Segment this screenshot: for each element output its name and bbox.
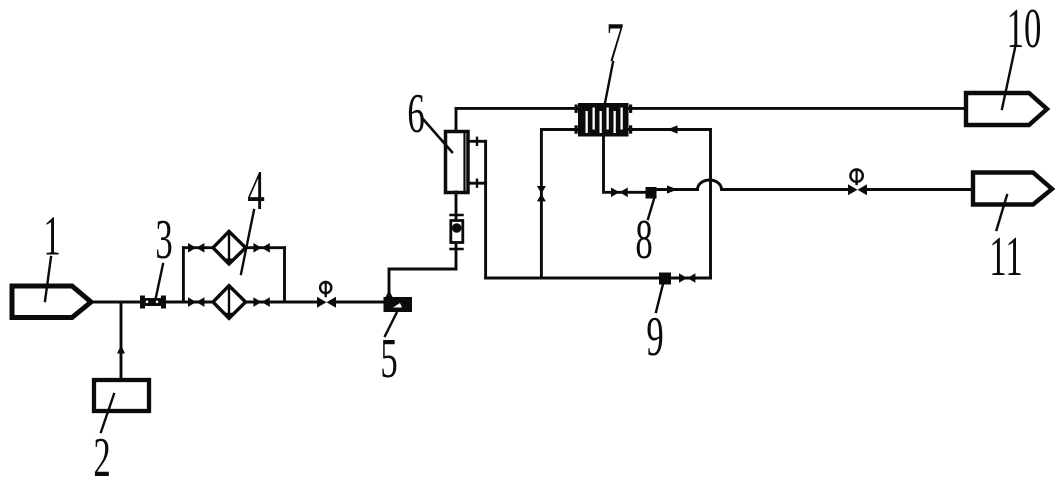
label 3 leader xyxy=(156,264,163,297)
vessel 6 side stubs xyxy=(468,141,486,183)
wire: up to vessel 6 xyxy=(455,192,458,269)
label 2 leader xyxy=(101,394,114,432)
wire: exchanger bottom-left to loop xyxy=(541,130,578,279)
inline instrument under 6 xyxy=(451,214,463,217)
wire: upper branch xyxy=(183,246,284,249)
node T to tank 2 xyxy=(120,302,123,380)
wire: left riser of filter pair xyxy=(182,248,185,302)
heat exchanger 7 xyxy=(578,103,629,137)
exchanger port ticks xyxy=(575,105,633,134)
svg-text:7: 7 xyxy=(606,12,623,75)
svg-text:6: 6 xyxy=(407,83,424,146)
flow arrow right xyxy=(667,185,678,193)
wire: bottom return line xyxy=(486,277,711,280)
svg-text:9: 9 xyxy=(646,306,663,369)
valve on pump 8 line xyxy=(611,188,619,198)
flow arrow up at pump 5 xyxy=(385,290,393,298)
svg-text:4: 4 xyxy=(247,160,264,223)
flow arrow left toward exchanger xyxy=(667,125,678,133)
svg-text:3: 3 xyxy=(155,209,172,272)
wire: exchanger bottom-right to downcomer xyxy=(629,130,711,279)
label 9 leader xyxy=(656,284,663,312)
vessel 6 xyxy=(446,132,469,193)
wire: to pump 5 xyxy=(336,301,389,304)
flow arrow up on tank 2 line xyxy=(117,345,125,354)
valve on bottom return xyxy=(679,273,687,283)
valve upper-left xyxy=(188,243,196,253)
source arrow box 1 xyxy=(12,286,91,318)
pump 8 xyxy=(646,187,657,199)
label 6 leader xyxy=(423,119,452,152)
wire: exchanger 7 to receiver 10 xyxy=(629,107,967,110)
pump 9 xyxy=(659,273,671,285)
label 10 leader xyxy=(1002,48,1015,109)
wire: vessel 6 top to exchanger line xyxy=(456,108,578,131)
wire: right riser of filter pair xyxy=(283,248,286,302)
valve lower-left xyxy=(188,297,196,307)
wire: pump 8 to receiver 11 with crossover xyxy=(657,180,849,190)
vertical valve on loop xyxy=(537,186,546,194)
wire: vessel 6 side loop down xyxy=(484,141,487,278)
svg-text:10: 10 xyxy=(1007,0,1042,60)
pump 5 xyxy=(384,297,413,312)
valve upper-right xyxy=(253,243,261,253)
valve lower-right xyxy=(253,297,261,307)
label 5 leader xyxy=(385,313,397,336)
wire: main line from 1 to valve group xyxy=(91,301,317,304)
svg-text:2: 2 xyxy=(93,427,110,480)
wire: riser from pump 5 xyxy=(389,269,456,302)
inline device 3 xyxy=(140,296,166,309)
label 8 leader xyxy=(648,199,654,219)
label 11 leader xyxy=(997,195,1008,230)
globe valve before receiver 11 xyxy=(848,184,858,195)
filter 4 lower diamond xyxy=(213,286,246,319)
label 1 leader xyxy=(45,257,51,301)
svg-text:1: 1 xyxy=(43,205,60,268)
svg-text:8: 8 xyxy=(635,209,652,272)
globe valve after filters xyxy=(317,297,327,308)
svg-text:5: 5 xyxy=(380,328,397,391)
receiver 11 xyxy=(973,173,1052,205)
label 4 leader xyxy=(241,210,254,274)
svg-text:11: 11 xyxy=(989,226,1022,289)
label 7 leader xyxy=(605,62,613,103)
receiver 10 xyxy=(966,93,1047,125)
tank 2 xyxy=(94,380,149,411)
filter 4 upper diamond xyxy=(213,231,246,264)
wire: exchanger bottom outlet xyxy=(604,136,647,192)
